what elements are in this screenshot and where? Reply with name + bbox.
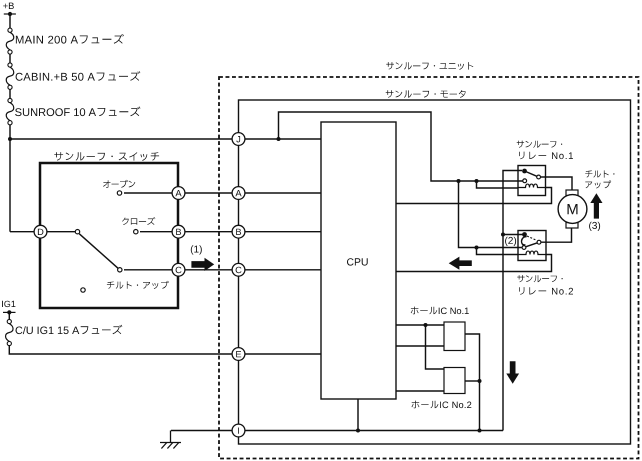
label sunroof unit <box>386 62 473 70</box>
motor M body <box>558 195 587 224</box>
junction IC ground <box>478 429 482 433</box>
wire relay2 coil return to CPU <box>396 255 552 272</box>
label open <box>103 180 135 188</box>
wire B to CPU <box>245 231 321 233</box>
contact unused (small circle) <box>81 288 85 292</box>
node +B label <box>3 3 14 9</box>
junction relay2 supply <box>501 233 505 237</box>
terminal B (switch) <box>172 225 185 238</box>
switch arm pivot (small circle) <box>75 230 79 234</box>
label sunroof switch <box>54 152 159 161</box>
junction IC supply <box>424 323 428 327</box>
wire +B rail top <box>9 14 11 28</box>
label CPU <box>347 258 368 265</box>
wire A to CPU <box>245 192 321 194</box>
wire A-A <box>185 192 232 194</box>
CPU box <box>321 122 396 399</box>
wire IG1 to terminal E <box>9 346 232 354</box>
label hall IC2 <box>412 401 472 409</box>
label sunroof motor <box>386 90 466 98</box>
wire switch B row <box>140 231 172 233</box>
fuse MAIN 200A <box>8 28 12 32</box>
wire supply to IC2 <box>426 325 445 369</box>
label relay1 line1 <box>517 141 563 148</box>
terminal A (switch) <box>172 187 185 200</box>
wire C-C <box>185 269 232 271</box>
wire relay supply vertical <box>503 171 522 431</box>
junction IC2 output <box>478 379 482 383</box>
wire CPU to IC1 b <box>396 345 444 347</box>
terminal C (unit) <box>232 263 245 276</box>
annotation arrow up (3) <box>590 193 602 218</box>
relay RY1 arm <box>525 171 537 176</box>
wire +B to terminal J <box>10 138 232 140</box>
contact close (small circle) <box>134 230 138 234</box>
relay RY1 box <box>518 166 546 196</box>
fuse SUNROOF 10A <box>8 98 12 102</box>
fuse C/U IG1 15A <box>7 319 11 323</box>
wire J bypass over CPU to relays <box>279 112 523 181</box>
relay RY1 common contact (dot) <box>522 169 527 174</box>
label fuse C/U IG1 <box>16 325 123 334</box>
label close <box>122 217 155 225</box>
label M <box>568 204 578 214</box>
wire C to CPU <box>245 269 321 271</box>
wire to relay1 coil <box>477 181 519 188</box>
relay RY2 arm <box>526 243 537 247</box>
fuse CABIN.+B 50A <box>8 63 12 67</box>
relay RY2 rest position (dashed) <box>527 236 537 240</box>
wire +B rail seg2 <box>9 54 11 63</box>
wire to relay2 coil <box>477 248 519 255</box>
terminal I (unit) <box>232 424 245 437</box>
annotation arrow right (1) <box>191 258 214 271</box>
label fuse SUNROOF <box>15 107 140 117</box>
label fuse MAIN <box>16 34 124 44</box>
terminal D <box>34 225 47 238</box>
wire relay2 output to motor - <box>541 228 571 242</box>
label tilt-up line2 <box>585 181 611 189</box>
junction J wire <box>277 137 281 141</box>
relay RY2 NC contact <box>522 246 526 250</box>
label hall IC1 <box>411 307 469 315</box>
wire IC1 output <box>465 334 480 431</box>
motor M terminals <box>566 190 578 196</box>
contact open (small circle) <box>117 191 121 195</box>
label relay1 line2 <box>519 152 573 160</box>
label relay2 line1 <box>517 275 563 282</box>
wire CPU ground drop <box>357 399 359 431</box>
node +B start bar and dot <box>4 13 16 15</box>
wire switch C row <box>124 269 172 271</box>
wire relay1 output to motor + <box>541 177 572 190</box>
annotation (1) <box>191 245 202 254</box>
ground symbol <box>170 431 172 443</box>
annotation (3) <box>589 222 600 231</box>
hall IC1 box <box>444 322 465 351</box>
relay RY1 NC contact <box>523 179 527 183</box>
wire IG1 stub <box>8 312 10 319</box>
wire supply to relay2 contact <box>503 234 525 236</box>
wire relay1 coil return to CPU <box>396 188 552 204</box>
node IG1 label <box>2 301 15 307</box>
terminal J (unit) <box>232 133 245 146</box>
terminal B (unit) <box>232 225 245 238</box>
label relay2 line2 <box>519 287 573 295</box>
relay RY1 NO contact <box>537 175 541 179</box>
junction CPU ground <box>356 429 360 433</box>
junction +B / J branch <box>8 137 12 141</box>
label fuse CABIN <box>16 71 141 81</box>
relay RY2 actuation arc arrow <box>522 237 527 246</box>
junction relay2 coil branch <box>475 246 479 250</box>
label tilt-up line1 <box>585 170 614 177</box>
terminal C (switch) <box>172 263 185 276</box>
node IG1 start bar and dot <box>3 311 16 313</box>
terminal A (unit) <box>232 187 245 200</box>
wire CPU to IC2 b <box>396 390 444 392</box>
wire +B rail seg3 <box>9 89 11 98</box>
sunroof motor box <box>239 100 631 444</box>
junction bypass 1 <box>457 179 461 183</box>
hall IC2 box <box>444 368 465 394</box>
annotation (2) <box>505 237 516 246</box>
wire +B rail to switch D <box>9 125 11 232</box>
switch arm (moving contact) <box>79 234 118 268</box>
relay RY2 NO contact <box>537 240 541 244</box>
sunroof unit box (dashed) <box>219 77 639 459</box>
contact tilt-up (small circle) <box>118 268 122 272</box>
wire I to ground <box>171 430 232 432</box>
junction bypass 2 <box>475 179 479 183</box>
relay RY2 coil <box>518 251 546 254</box>
switch box (sunroof switch) <box>40 163 178 308</box>
annotation arrow left <box>449 257 472 270</box>
wire D to arm pivot <box>47 231 76 233</box>
terminal E (unit) <box>232 348 245 361</box>
wire switch A row <box>124 192 172 194</box>
wire to relay2 contact <box>459 181 522 248</box>
wire CPU to IC1 a <box>396 324 444 326</box>
wire J to CPU <box>245 138 321 140</box>
wire B-B <box>185 231 232 233</box>
wire IC2 output <box>465 380 480 382</box>
relay RY1 coil <box>518 184 546 187</box>
label tilt-up <box>107 281 169 289</box>
wire E to CPU <box>245 353 321 355</box>
wire I bus right <box>245 430 503 432</box>
relay RY2 common contact (dot) <box>522 232 527 237</box>
annotation arrow down <box>506 361 519 384</box>
relay RY2 box <box>518 231 546 261</box>
